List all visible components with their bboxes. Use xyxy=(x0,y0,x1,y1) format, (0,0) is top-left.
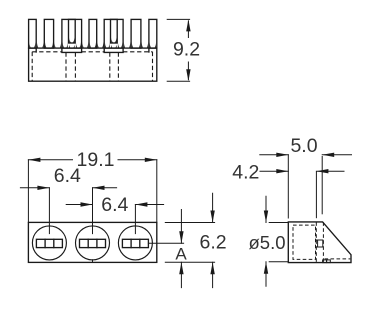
svg-text:5.0: 5.0 xyxy=(290,135,317,157)
side view outline xyxy=(288,222,351,263)
tooth slot 5 outer xyxy=(104,19,123,48)
svg-text:A: A xyxy=(175,245,187,264)
contact marks in slots xyxy=(29,38,156,49)
hole center extension line 3 xyxy=(134,205,136,234)
box bottom extension line xyxy=(165,261,214,263)
dimension 9.2 arrowheads xyxy=(186,19,190,31)
svg-text:6.4: 6.4 xyxy=(101,194,128,216)
hole circle 2 xyxy=(76,226,110,260)
dimension A arrowheads xyxy=(179,231,183,243)
dimension 6.4 first arrowheads xyxy=(37,186,49,190)
hole circle 3 xyxy=(118,226,152,260)
tooth slot 1 xyxy=(29,19,37,48)
tooth slot 4 xyxy=(89,19,97,48)
divider notch right xyxy=(104,48,123,52)
tooth slot 6 xyxy=(131,19,141,48)
dimension 5.0 line xyxy=(260,154,352,156)
svg-text:6.2: 6.2 xyxy=(200,231,227,253)
hole centerline extension right xyxy=(148,242,183,244)
tooth slot 7 xyxy=(149,19,157,48)
cavity corner stub left xyxy=(35,48,37,52)
dimension 6.4 first line xyxy=(20,187,116,189)
hole center extension line 1 xyxy=(48,188,50,234)
cavity 2 hidden outline xyxy=(75,52,109,81)
slot rectangle 1 xyxy=(36,239,62,247)
diameter 5.0 top extension xyxy=(269,222,288,224)
tooth slot 5 inner xyxy=(111,19,118,43)
slot rectangle 2 xyxy=(80,239,106,247)
dimension 5.0 arrowheads xyxy=(276,153,288,157)
contact clip detail xyxy=(318,240,323,247)
dimension 6.2 arrowheads xyxy=(210,211,214,223)
tooth slot 3 inner xyxy=(69,19,76,43)
side view hidden line 2 xyxy=(322,222,324,262)
dimension A line xyxy=(180,210,182,288)
cavity corner stub right xyxy=(148,48,150,52)
svg-text:ø5.0: ø5.0 xyxy=(248,232,285,253)
dimension 4.2 line xyxy=(260,170,344,172)
diameter 5.0 dimension line xyxy=(265,196,267,286)
svg-text:4.2: 4.2 xyxy=(232,162,259,184)
top view body outline xyxy=(29,48,157,81)
svg-text:6.4: 6.4 xyxy=(54,165,81,187)
dimension 19.1 line xyxy=(28,159,156,161)
hole center extension line 2 xyxy=(92,188,94,234)
side view left extension line xyxy=(287,155,289,218)
tooth slot 2 xyxy=(44,19,53,48)
dimension 6.2 line xyxy=(212,193,214,287)
dimension 6.4 second line xyxy=(66,204,163,206)
dimension 5.0 extension line xyxy=(321,157,323,214)
side view hidden line in foot xyxy=(325,258,351,260)
bottom center tick xyxy=(92,260,94,263)
dimension 6.4 second arrowheads xyxy=(81,202,93,206)
box top extension line xyxy=(165,222,214,224)
svg-text:19.1: 19.1 xyxy=(77,149,115,171)
dimension 4.2 arrowheads xyxy=(276,169,288,173)
cavity 3 hidden outline xyxy=(118,52,152,81)
front view box outline xyxy=(28,222,156,262)
svg-text:9.2: 9.2 xyxy=(173,39,200,61)
dimension 4.2 extension line xyxy=(315,172,317,218)
diameter 5.0 arrowheads xyxy=(264,211,268,223)
dimension 19.1 arrowheads xyxy=(28,158,40,162)
hole circle 1 xyxy=(32,226,66,260)
diameter 5.0 bottom extension xyxy=(269,261,288,263)
tooth slot 3 outer xyxy=(62,19,82,48)
cavity 1 hidden outline xyxy=(32,52,66,81)
bottom feet detail xyxy=(323,260,327,263)
side view hidden line 1 xyxy=(315,222,317,262)
dimension 9.2 line xyxy=(187,21,189,80)
dimension 19.1 extension lines xyxy=(27,160,29,223)
side view hidden cavity xyxy=(293,225,316,259)
dimension 9.2 extension lines xyxy=(167,19,189,81)
divider notch left xyxy=(62,48,82,52)
slot rectangle 3 xyxy=(122,239,148,247)
